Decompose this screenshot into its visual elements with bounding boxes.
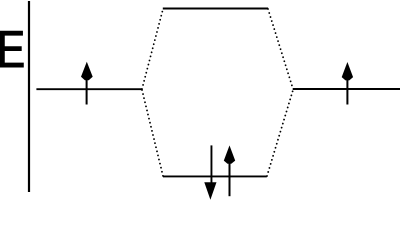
left electron up-arrow bbox=[81, 62, 93, 105]
dotted line left-top bbox=[142, 9, 163, 89]
right electron up-arrow bbox=[342, 62, 353, 105]
dotted line left-bottom bbox=[142, 90, 163, 176]
bonding electron down-arrow bbox=[204, 145, 216, 199]
dotted line right-bottom bbox=[267, 90, 293, 176]
bonding MO level bbox=[163, 175, 267, 177]
axis label E bbox=[0, 31, 23, 67]
dotted line right-top bbox=[268, 9, 293, 89]
antibonding MO level bbox=[163, 8, 268, 10]
left atomic orbital level bbox=[36, 88, 141, 90]
right atomic orbital level bbox=[293, 88, 400, 90]
energy axis bbox=[28, 1, 30, 192]
bonding electron up-arrow bbox=[224, 145, 235, 196]
